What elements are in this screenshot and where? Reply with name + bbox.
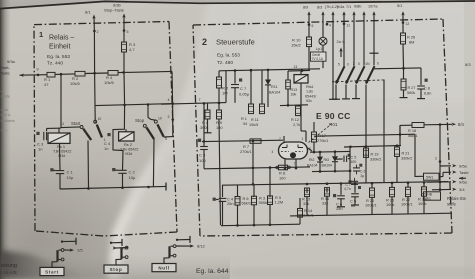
lamp label box: [311, 52, 327, 61]
svg-text:T.Bv 65422: T.Bv 65422: [53, 150, 71, 154]
wire: [306, 197, 308, 216]
svg-text:Rt3: Rt3: [324, 158, 330, 162]
wire: [85, 72, 108, 75]
node 6: [308, 23, 311, 26]
svg-text:39k: 39k: [291, 93, 297, 97]
svg-text:93c: 93c: [306, 99, 312, 103]
svg-text:trolltaste: trolltaste: [1, 119, 15, 123]
wire: [391, 197, 393, 214]
node junctions on rail: [306, 183, 309, 186]
wire: [399, 125, 401, 134]
svg-text:7V 0,1A: 7V 0,1A: [312, 57, 324, 61]
svg-text:Stop: Stop: [110, 267, 123, 272]
svg-text:8/1: 8/1: [85, 10, 91, 15]
svg-text:C 7: C 7: [240, 86, 247, 91]
svg-text:6: 6: [377, 62, 379, 66]
node junction: [252, 183, 255, 186]
svg-text:5/1: 5/1: [397, 4, 402, 8]
wire: [299, 198, 301, 209]
svg-text:560k: 560k: [407, 91, 415, 95]
svg-text:1M: 1M: [222, 91, 228, 96]
svg-text:8/12: 8/12: [197, 244, 206, 249]
resistor R20: [371, 183, 373, 188]
wire: [308, 47, 310, 68]
svg-text:10µ: 10µ: [129, 175, 136, 180]
wire: [308, 24, 310, 37]
wire: [335, 85, 337, 100]
wire: [122, 151, 125, 171]
capacitor 4,7n: [351, 180, 358, 182]
wire: [123, 72, 126, 105]
resistor R27: [403, 68, 405, 79]
node junction: [93, 72, 96, 75]
wire: [332, 24, 334, 99]
svg-text:Tz. 440: Tz. 440: [47, 61, 63, 67]
svg-text:R13: R13: [291, 88, 298, 92]
svg-text:100: 100: [279, 176, 286, 181]
wire: [288, 69, 310, 72]
svg-text:BA104: BA104: [322, 164, 333, 168]
capacitor C2: [112, 168, 115, 171]
node 7: [203, 102, 206, 105]
wire: [123, 52, 125, 72]
resistor R26: [402, 31, 404, 33]
node 3: [172, 118, 175, 121]
svg-text:10k/5: 10k/5: [70, 81, 81, 86]
tube pin 7b: [295, 160, 297, 169]
svg-text:R 11: R 11: [251, 118, 259, 122]
svg-text:Rt2: Rt2: [309, 158, 315, 162]
svg-text:10k/5: 10k/5: [249, 123, 258, 127]
svg-text:Rs 2: Rs 2: [124, 142, 132, 147]
node junction: [252, 167, 255, 170]
wire: [225, 71, 227, 103]
resistor R12b: [297, 105, 299, 106]
wire: [269, 168, 271, 185]
svg-text:9/6a: 9/6a: [459, 180, 468, 185]
terminal bar: [329, 98, 337, 100]
tube E90CC envelope: [279, 142, 308, 159]
wire: [203, 103, 205, 140]
svg-text:5W1: 5W1: [426, 175, 433, 179]
terminal end bar: [165, 183, 167, 191]
wire: [148, 118, 156, 121]
capacitor C8: [420, 68, 422, 85]
svg-text:1/5: 1/5: [120, 246, 126, 251]
svg-text:330k/2: 330k/2: [370, 157, 381, 161]
svg-text:n Aü-A/B: n Aü-A/B: [0, 270, 17, 275]
wire: [252, 141, 254, 185]
wire: [322, 45, 324, 52]
node junction: [313, 151, 316, 154]
wire: [284, 160, 286, 169]
svg-text:C 2: C 2: [129, 169, 136, 174]
svg-text:4: 4: [62, 122, 64, 126]
svg-text:7: 7: [279, 137, 281, 141]
wire: [219, 119, 221, 225]
tap bar: [370, 52, 379, 54]
node junction: [349, 146, 352, 149]
node junction: [267, 69, 270, 72]
node junction: [87, 187, 90, 190]
svg-text:1,2M: 1,2M: [275, 200, 284, 205]
svg-text:100k: 100k: [386, 202, 394, 207]
net 3/4: [439, 188, 442, 191]
svg-text:8/3: 8/3: [317, 6, 322, 10]
wire: [353, 24, 355, 66]
diode Rt2 BA104: [319, 152, 321, 157]
terminal bar: [342, 98, 350, 100]
wire: [87, 141, 90, 189]
svg-text:10/7a: 10/7a: [368, 4, 378, 8]
terminal bar: [420, 89, 422, 98]
resistor R10: [307, 37, 312, 47]
Steuerstufe enclosure box 2 border: [193, 19, 443, 25]
svg-text:Steuerstufe: Steuerstufe: [216, 38, 255, 47]
terminal bar: [352, 98, 360, 100]
svg-text:4: 4: [168, 98, 170, 102]
wire: [365, 85, 367, 184]
resistor R3: [122, 42, 127, 52]
wire: [439, 176, 443, 178]
svg-text:5: 5: [309, 147, 311, 151]
svg-text:0: 0: [347, 62, 349, 66]
wire: [374, 67, 421, 70]
svg-text:1,8s: 1,8s: [306, 90, 313, 94]
node 4: [326, 23, 329, 26]
svg-text:tator: tator: [1, 108, 9, 112]
wire: [371, 197, 373, 214]
node junction: [121, 186, 124, 189]
wire: [383, 80, 385, 183]
svg-text:330k/2: 330k/2: [401, 156, 412, 160]
terminal bar: [340, 199, 342, 207]
relay Rts1 coil: [300, 71, 302, 75]
wire: [59, 143, 62, 170]
wire: [60, 74, 62, 127]
wire: [415, 134, 424, 176]
net 8/4: [452, 123, 456, 126]
resistor R19: [364, 148, 369, 157]
svg-text:13: 13: [294, 65, 298, 69]
svg-text:R 19: R 19: [371, 153, 379, 157]
svg-text:ls: ls: [1, 90, 4, 94]
wire: [373, 24, 375, 57]
node junction: [203, 140, 206, 143]
wire: [60, 186, 166, 189]
wire: [319, 162, 321, 171]
wire: [280, 104, 308, 107]
node junction: [349, 170, 352, 173]
svg-text:/93d: /93d: [58, 154, 65, 158]
svg-text:Tz. 480: Tz. 480: [217, 60, 233, 66]
svg-text:BA104: BA104: [307, 164, 318, 168]
resistor R17: [312, 132, 317, 142]
capacitor C4: [107, 133, 110, 136]
relay Rs2 coil: [119, 132, 134, 141]
net 9/6a: [439, 181, 442, 184]
resistor R25: [391, 183, 393, 187]
wire: [253, 185, 255, 197]
wire: [94, 73, 97, 120]
wire: [399, 125, 401, 140]
wire: [58, 128, 60, 133]
wire: [161, 103, 226, 105]
svg-text:7: 7: [294, 162, 296, 166]
wire: [152, 139, 155, 187]
node 5: [123, 29, 126, 32]
svg-text:1: 1: [302, 137, 304, 141]
wire: [308, 68, 310, 71]
capacitor C-2: [353, 167, 360, 169]
resistor R2: [75, 71, 85, 76]
wire: [343, 24, 345, 66]
node 9: [37, 74, 40, 77]
contact linkage: [332, 80, 384, 82]
svg-text:a —: a —: [1, 128, 8, 132]
svg-text:Eg. la. 553: Eg. la. 553: [47, 54, 70, 60]
capacitor C7: [234, 71, 236, 84]
svg-text:9/8b: 9/8b: [354, 5, 361, 9]
svg-text:25n: 25n: [227, 201, 234, 206]
wire: [118, 71, 172, 72]
wire: [349, 147, 351, 184]
resistor R21: [395, 147, 400, 156]
svg-text:10k/5: 10k/5: [104, 80, 115, 85]
resistor R14: [298, 209, 303, 218]
wire: [267, 85, 269, 107]
svg-text:1n: 1n: [104, 146, 108, 151]
wire: [424, 123, 446, 125]
wire: [269, 185, 271, 197]
node junction: [147, 186, 150, 189]
svg-text:1n: 1n: [38, 147, 42, 152]
svg-text:2: 2: [202, 37, 207, 47]
svg-text:100: 100: [350, 160, 356, 164]
svg-text:10: 10: [158, 117, 162, 121]
svg-text:/93d: /93d: [125, 152, 132, 156]
pushbutton Start: [40, 267, 64, 275]
resistor R6: [235, 197, 240, 206]
pushbutton Stop: [104, 265, 128, 273]
wire: [164, 136, 173, 138]
wire: [123, 31, 125, 43]
terminal bar: [354, 197, 356, 205]
wire: [222, 185, 224, 197]
svg-text:5: 5: [127, 30, 129, 34]
svg-text:BA104: BA104: [269, 91, 280, 95]
resistor R4: [108, 71, 118, 76]
wire: [300, 83, 302, 105]
svg-text:56k/1: 56k/1: [408, 133, 418, 138]
resistor R4b: [207, 103, 209, 110]
node junction: [60, 73, 63, 76]
node 2: [93, 30, 96, 33]
svg-text:4,7: 4,7: [129, 47, 135, 52]
wire: [94, 120, 96, 123]
svg-text:7: 7: [199, 98, 201, 102]
svg-text:2: 2: [435, 157, 437, 161]
svg-text:R 1: R 1: [241, 117, 247, 121]
resistor R8: [276, 166, 279, 169]
svg-text:rstufe: rstufe: [1, 95, 11, 99]
wire: [287, 89, 289, 105]
wire: [237, 185, 239, 197]
svg-text:8/9: 8/9: [303, 6, 308, 10]
wire: [55, 73, 75, 76]
wire: [402, 44, 405, 68]
diode bottom wire: [312, 170, 350, 173]
node junction: [402, 67, 405, 70]
wire: [46, 128, 48, 131]
node junction: [234, 69, 237, 72]
wire: [234, 88, 236, 103]
switch box SW1: [424, 173, 440, 180]
wire: [439, 125, 441, 191]
resistor R15b: [261, 70, 263, 104]
node 12: [402, 21, 405, 24]
wire: [222, 182, 448, 186]
node junction: [250, 69, 253, 72]
svg-text:Relais –: Relais –: [49, 35, 74, 42]
svg-text:R11: R11: [271, 85, 278, 89]
capacitor C5: [336, 158, 343, 160]
wire: [373, 57, 375, 65]
relay contacts: [336, 66, 345, 83]
wire: [218, 88, 220, 103]
svg-text:9/4a: 9/4a: [337, 5, 345, 9]
wire: [122, 173, 124, 187]
svg-text:47: 47: [44, 82, 49, 87]
svg-text:2,7k: 2,7k: [293, 123, 300, 127]
svg-text:33k: 33k: [303, 201, 309, 206]
svg-text:R 21: R 21: [402, 152, 410, 156]
svg-text:7: 7: [353, 62, 355, 66]
svg-text:9/3a: 9/3a: [7, 59, 16, 64]
wire: [222, 201, 224, 225]
diode R11 BA104: [267, 70, 269, 80]
svg-text:3k1: 3k1: [426, 196, 431, 200]
resistor R7: [250, 139, 261, 143]
svg-text:5: 5: [358, 62, 360, 66]
svg-text:R 12: R 12: [291, 118, 299, 122]
wire rail cathode-bottom: [204, 167, 310, 169]
svg-text:5: 5: [338, 63, 340, 67]
capacitor C3b: [198, 139, 201, 142]
resistor R5: [268, 196, 273, 205]
svg-text:5: 5: [165, 137, 167, 141]
relay Rs1 coil: [48, 133, 70, 143]
node 13: [301, 69, 304, 72]
svg-text:6: 6: [312, 24, 314, 28]
resistor R13: [287, 71, 289, 80]
svg-text:C 8: C 8: [424, 87, 430, 91]
capacitor C4b: [219, 197, 227, 199]
svg-text:270k/1: 270k/1: [240, 149, 252, 154]
wire: [396, 146, 398, 147]
wire cathode row: [202, 140, 283, 141]
wire top entries: [307, 11, 310, 15]
resistor R24: [423, 183, 425, 187]
lamp Lp1: [322, 24, 324, 37]
wire: [344, 146, 401, 148]
svg-text:100k/1: 100k/1: [401, 202, 413, 207]
svg-text:2: 2: [97, 30, 99, 34]
svg-text:15k/2: 15k/2: [291, 43, 302, 48]
terminal bar: [332, 98, 340, 100]
svg-text:270k/1: 270k/1: [317, 139, 328, 143]
svg-text:R 27: R 27: [408, 86, 416, 90]
svg-text:7/1: 7/1: [346, 5, 351, 9]
svg-text:Taste: Taste: [459, 170, 469, 175]
node junction: [319, 170, 322, 173]
resistor R15: [306, 188, 308, 193]
svg-text:7: 7: [85, 130, 87, 134]
svg-text:10: 10: [98, 117, 102, 121]
node 11: [343, 23, 346, 26]
resistor R1b: [250, 70, 252, 104]
wire: [355, 85, 357, 99]
wire: [93, 31, 95, 73]
resistor R16: [326, 188, 328, 193]
wire: [423, 196, 425, 213]
wire: [95, 104, 173, 106]
tube pin 1: [305, 131, 307, 142]
wire: [402, 23, 404, 32]
capacitor C1: [50, 168, 53, 171]
resistor R9b: [218, 103, 220, 110]
svg-text:Start: Start: [71, 121, 81, 126]
svg-text:0,05µ: 0,05µ: [239, 92, 250, 97]
node junction: [439, 123, 442, 126]
node junction: [399, 133, 402, 136]
svg-text:6,8n: 6,8n: [424, 91, 431, 95]
wire: [20, 74, 24, 77]
wire: [407, 197, 409, 214]
svg-text:Taste: Taste: [0, 71, 10, 76]
lead line: [309, 124, 333, 143]
net 9/5a: [440, 165, 451, 167]
svg-text:94: 94: [243, 122, 247, 126]
svg-text:11: 11: [347, 23, 351, 27]
wire: [301, 130, 306, 132]
svg-text:Start: Start: [45, 270, 59, 275]
wire: [345, 85, 347, 99]
resistor R18: [412, 123, 424, 128]
diode Rt3 BA104: [334, 152, 336, 157]
svg-text:56k/1: 56k/1: [242, 201, 252, 206]
svg-text:100: 100: [199, 158, 206, 163]
resistor R1: [47, 72, 55, 77]
svg-text:8/3: 8/3: [465, 62, 471, 67]
svg-text:Rts1: Rts1: [306, 85, 314, 89]
node junction: [287, 104, 290, 107]
svg-text:8M: 8M: [409, 40, 414, 45]
svg-text:100k: 100k: [418, 201, 426, 206]
svg-text:Relais-Ste: Relais-Ste: [447, 196, 467, 201]
svg-text:Einheit: Einheit: [49, 44, 70, 51]
wire: [363, 24, 365, 66]
svg-text:C 7: C 7: [346, 183, 351, 187]
svg-text:1/5: 1/5: [77, 248, 83, 253]
svg-text:4,7n: 4,7n: [344, 187, 351, 191]
wire: [61, 126, 80, 129]
svg-text:C 3: C 3: [199, 153, 206, 158]
capacitor C3: [36, 132, 39, 135]
svg-text:Start-: Start-: [0, 65, 10, 70]
svg-text:stufe: stufe: [447, 202, 457, 207]
Relais-Einheit enclosure box 1 border: [34, 22, 169, 25]
